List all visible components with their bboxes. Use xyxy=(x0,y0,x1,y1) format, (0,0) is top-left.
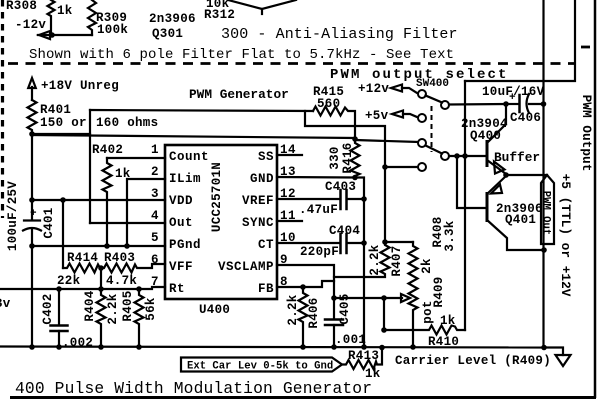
switch dashed link xyxy=(431,106,433,152)
junction Q401 collector rail xyxy=(541,247,547,253)
pin 5 label xyxy=(151,231,201,252)
svg-text:1k: 1k xyxy=(57,4,73,18)
pin 3 label xyxy=(151,187,193,208)
junction R405 top xyxy=(136,286,142,292)
svg-text:C404: C404 xyxy=(329,224,360,238)
ground bus wire xyxy=(0,347,545,348)
wire emitter node to PWM Out flag xyxy=(506,174,547,176)
resistor R312 labels xyxy=(204,0,235,22)
op-amp U400 IC body xyxy=(165,145,277,299)
capacitor C406 xyxy=(482,85,545,125)
svg-text:150 or: 150 or xyxy=(40,116,87,130)
pin 6 label xyxy=(151,253,193,274)
junction R404 bus xyxy=(98,344,104,350)
wire bus to output triangle xyxy=(545,348,563,356)
pin 2 label xyxy=(151,165,201,186)
pin 8 label xyxy=(258,275,288,296)
node VDD junction xyxy=(29,131,35,137)
resistor R413 xyxy=(342,348,382,382)
svg-text:UCC25701N: UCC25701N xyxy=(210,162,224,232)
junction wiper vertical xyxy=(381,295,387,301)
junction C404 vertical xyxy=(361,240,367,246)
resistor R414 xyxy=(57,251,100,288)
net +5v flag xyxy=(365,109,417,123)
resistor R402 xyxy=(92,143,131,246)
svg-text:GND: GND xyxy=(250,172,274,186)
junction rail pin5 xyxy=(29,243,35,249)
svg-text:+12v: +12v xyxy=(358,82,389,96)
resistor R408 and pot R409 xyxy=(409,216,458,347)
transistor Q401 xyxy=(487,176,544,250)
pin 14 label xyxy=(258,143,296,164)
capacitor C405 xyxy=(325,293,366,347)
svg-text:4: 4 xyxy=(151,209,159,223)
svg-text:PWM Output: PWM Output xyxy=(579,95,594,172)
node junction xyxy=(49,32,55,38)
junction R414 R403 xyxy=(98,265,104,271)
svg-text:Rt: Rt xyxy=(169,282,185,296)
svg-text:Count: Count xyxy=(169,150,209,164)
wire pin12 VREF xyxy=(277,198,340,200)
svg-text:C402: C402 xyxy=(41,293,55,324)
switch SW400 contact 2 xyxy=(418,114,426,122)
capacitor C402 xyxy=(41,289,93,350)
wire with left arrow xyxy=(38,31,92,39)
switch SW400 contact 3 xyxy=(418,139,426,147)
resistor R407 xyxy=(334,239,404,277)
pin 1 label xyxy=(151,143,209,164)
junction R410 left xyxy=(381,327,387,333)
resistor R401 xyxy=(28,100,87,134)
switch SW400 pole 1 xyxy=(441,101,449,109)
svg-text:PWM Generator: PWM Generator xyxy=(189,87,289,102)
resistor R309 xyxy=(88,0,128,37)
svg-text:2: 2 xyxy=(151,165,159,179)
svg-text:.47uF: .47uF xyxy=(299,203,338,217)
svg-text:C403: C403 xyxy=(325,180,356,194)
pin 14 stub xyxy=(277,154,302,156)
svg-text:+5v: +5v xyxy=(365,109,389,123)
svg-text:FB: FB xyxy=(258,282,274,296)
svg-text:56k: 56k xyxy=(144,297,158,321)
wire top rail x543 xyxy=(542,0,544,104)
capacitor C404 xyxy=(300,224,364,259)
dashed section border vertical left xyxy=(1,0,4,218)
svg-text:Ext Car Lev 0-5k to Gnd: Ext Car Lev 0-5k to Gnd xyxy=(187,361,333,373)
transistor Q400 xyxy=(461,104,508,174)
svg-text:SW400: SW400 xyxy=(416,78,449,90)
junction C405 bus xyxy=(331,344,337,350)
svg-text:5: 5 xyxy=(151,231,159,245)
svg-text:R414: R414 xyxy=(67,251,98,265)
wire rail x544 down to bus xyxy=(542,104,544,348)
wire switch contact3 feed xyxy=(356,140,418,142)
svg-text:R405: R405 xyxy=(121,290,135,321)
svg-text:VDD: VDD xyxy=(169,194,193,208)
flag Ext Car Lev box xyxy=(181,358,342,373)
svg-text:1k: 1k xyxy=(365,367,381,381)
junction rail pin3 xyxy=(29,197,35,203)
resistor R308 xyxy=(6,0,73,35)
svg-text:SS: SS xyxy=(258,150,274,164)
pin 4 label xyxy=(151,209,193,230)
capacitor C403 xyxy=(299,180,364,217)
wire junction down to pin7 net xyxy=(100,268,102,289)
svg-text:Q301: Q301 xyxy=(152,27,183,41)
wire pin3 VDD xyxy=(32,199,165,201)
wire +V vertical x465 xyxy=(464,81,466,330)
wire Q401 base jog xyxy=(457,156,487,208)
svg-text:+5 (TTL) or +12V: +5 (TTL) or +12V xyxy=(558,174,573,297)
junction rail ground bus xyxy=(29,344,35,350)
net +12v flag xyxy=(358,82,417,96)
svg-text:100uF/25V: 100uF/25V xyxy=(6,181,20,251)
svg-text:300 - Anti-Aliasing Filter: 300 - Anti-Aliasing Filter xyxy=(221,26,458,43)
svg-text:ILim: ILim xyxy=(169,172,201,186)
pin 13 label xyxy=(250,165,296,186)
junction C406 right rail xyxy=(541,101,547,107)
wire pin1 xyxy=(107,157,165,159)
wire pin8 FB xyxy=(277,281,334,287)
resistor R410 xyxy=(384,314,465,349)
junction x457 on base wire xyxy=(454,153,460,159)
switch SW400 contact 1 xyxy=(418,90,426,98)
wire switch contact4 feed xyxy=(385,166,418,168)
flag PWM Out xyxy=(540,175,555,244)
svg-text:Q401: Q401 xyxy=(505,213,536,227)
wire wiper down to R410 xyxy=(383,298,385,330)
svg-text:Buffer: Buffer xyxy=(494,150,540,165)
resistor R415 xyxy=(313,85,355,139)
main rail upper segment xyxy=(31,134,33,220)
pin 11 label xyxy=(242,209,296,230)
svg-text:SYNC: SYNC xyxy=(242,216,274,230)
wire pin2 with corner xyxy=(127,179,165,246)
svg-text:100k: 100k xyxy=(97,23,128,37)
junction x465 on base wire xyxy=(462,153,468,159)
right border line xyxy=(594,0,597,398)
svg-text:PGnd: PGnd xyxy=(169,238,201,252)
junction R416 top xyxy=(352,136,358,142)
svg-text:2.2k: 2.2k xyxy=(286,294,300,325)
junction x364 bus xyxy=(361,344,367,350)
resistor R416 xyxy=(328,139,360,178)
bottom border line xyxy=(10,396,596,399)
svg-text:220pF: 220pF xyxy=(300,245,339,259)
switch blade 1 xyxy=(426,96,443,103)
svg-text:R401: R401 xyxy=(40,103,71,117)
main rail lower segment xyxy=(31,229,33,347)
wire 160 ohms branch top xyxy=(90,110,313,111)
wire pole1 to Q400 collector node xyxy=(449,103,506,106)
resistor R404 xyxy=(83,289,120,347)
ground output triangle xyxy=(556,355,571,366)
junction C403 vertical xyxy=(361,196,367,202)
junction pin3 tap xyxy=(60,197,66,203)
switch blade 2 xyxy=(426,146,443,154)
pin 12 label xyxy=(242,187,296,208)
pin 10 label xyxy=(258,231,296,252)
svg-text:+: + xyxy=(30,208,37,220)
svg-text:R402: R402 xyxy=(92,143,123,157)
wire pin10 CT xyxy=(277,242,340,244)
wire pin5 PGnd xyxy=(32,245,165,247)
svg-text:2n3906: 2n3906 xyxy=(149,12,196,26)
svg-text:4.7k: 4.7k xyxy=(106,274,137,288)
svg-text:Carrier Level (R409): Carrier Level (R409) xyxy=(395,354,551,368)
svg-text:400 Pulse Width Modulation Ge: 400 Pulse Width Modulation Generator xyxy=(15,379,372,398)
junction C406 left node xyxy=(503,101,509,107)
svg-text:3v: 3v xyxy=(0,297,11,311)
switch SW400 pole 2 xyxy=(441,152,449,160)
svg-text:VFF: VFF xyxy=(169,260,193,274)
wire VDD node to box left edge xyxy=(32,133,90,135)
junction R406 bus xyxy=(300,344,306,350)
junction R402 bottom on pin5 xyxy=(104,243,110,249)
svg-text:330: 330 xyxy=(328,146,342,169)
svg-text:PWM Out: PWM Out xyxy=(540,191,552,236)
svg-text:R413: R413 xyxy=(348,349,379,363)
svg-text:pot: pot xyxy=(421,300,435,323)
wire VDD node to R416 top xyxy=(32,135,355,138)
svg-text:22k: 22k xyxy=(57,274,81,288)
stray dash top right xyxy=(581,46,590,49)
svg-text:C401: C401 xyxy=(42,207,56,238)
wire pin13 GND xyxy=(277,177,364,347)
svg-text:R308: R308 xyxy=(6,0,37,13)
svg-text:1k: 1k xyxy=(440,314,456,328)
pin 7 label xyxy=(151,275,185,296)
junction R406 top xyxy=(300,284,306,290)
junction R416 bottom pin13 xyxy=(352,175,358,181)
junction R413 bus xyxy=(379,345,385,351)
svg-text:Out: Out xyxy=(169,216,193,230)
svg-text:2.2k: 2.2k xyxy=(106,293,120,324)
svg-text:VSCLAMP: VSCLAMP xyxy=(218,260,274,274)
svg-text:VREF: VREF xyxy=(242,194,274,208)
junction C402 top xyxy=(56,286,62,292)
svg-text:3.3k: 3.3k xyxy=(443,220,457,251)
svg-text:R407: R407 xyxy=(390,245,404,276)
wire pole2 to Q400 base xyxy=(449,155,487,157)
svg-text:R404: R404 xyxy=(83,290,97,321)
svg-text:160 ohms: 160 ohms xyxy=(96,116,158,130)
svg-text:2k: 2k xyxy=(420,258,434,274)
capacitor C401 xyxy=(6,181,56,251)
wire VDD tap down to R414 xyxy=(62,200,64,268)
wire top rail x575 with corner xyxy=(465,0,575,81)
wire pot wiper with arrow xyxy=(334,294,410,302)
svg-text:R416: R416 xyxy=(341,142,355,173)
resistor R406 xyxy=(286,287,321,347)
svg-text:R406: R406 xyxy=(307,297,321,328)
op-amp bottom tip (cut off at top) xyxy=(228,0,296,14)
junction contact4 tap xyxy=(382,164,388,170)
svg-text:.001: .001 xyxy=(335,333,366,347)
junction bus rail x544 xyxy=(541,345,547,351)
wire pin4 Out xyxy=(90,222,165,224)
wire vertical to pin4 xyxy=(89,110,91,223)
resistor R403 xyxy=(101,251,165,288)
dashed section separator horizontal xyxy=(8,62,575,65)
junction R405 bus xyxy=(136,344,142,350)
resistor R405 xyxy=(121,289,158,347)
junction pin2 vertical on pin5 xyxy=(124,243,130,249)
svg-text:CT: CT xyxy=(258,238,274,252)
svg-text:R403: R403 xyxy=(104,251,135,265)
svg-text:Shown with 6 pole Filter Flat: Shown with 6 pole Filter Flat to 5.7kHz … xyxy=(29,47,454,63)
wire R415 jog down to R407 branch xyxy=(305,111,385,242)
svg-text:+: + xyxy=(509,92,516,104)
transistor Q301 labels xyxy=(149,12,196,41)
svg-text:C406: C406 xyxy=(510,111,541,125)
net +18V Unreg arrow xyxy=(28,78,119,100)
switch SW400 contact 4 xyxy=(418,163,426,171)
wire R408 top feed xyxy=(385,241,413,243)
svg-text:+18V Unreg: +18V Unreg xyxy=(41,79,119,93)
pin 11 stub xyxy=(277,220,302,222)
svg-text:U400: U400 xyxy=(199,303,230,317)
svg-text:.002: .002 xyxy=(62,336,93,350)
wire pin7 Rt net xyxy=(0,287,165,289)
svg-text:1: 1 xyxy=(151,143,159,157)
junction R409 bus xyxy=(410,344,416,350)
junction emitter node xyxy=(503,172,509,178)
svg-text:-12v: -12v xyxy=(15,18,46,32)
junction R404 top xyxy=(98,286,104,292)
pin 9 label xyxy=(218,253,288,274)
svg-text:2.2k: 2.2k xyxy=(368,244,382,275)
junction C402 bus xyxy=(56,344,62,350)
svg-text:R312: R312 xyxy=(204,8,235,22)
wire pin9 VSCLAMP xyxy=(277,265,334,298)
